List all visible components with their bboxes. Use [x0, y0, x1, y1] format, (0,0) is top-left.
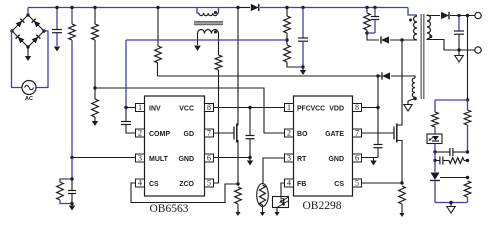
wire - FB to opto collector [281, 183, 285, 197]
ground - input cap return arrow [54, 47, 60, 52]
label GND U2 [328, 156, 344, 163]
wire - FB network top [435, 99, 468, 101]
ground - R11 return arrow [399, 213, 404, 217]
svg-text:8: 8 [207, 103, 211, 112]
resistor R4 (brown-out lower) [92, 88, 99, 121]
resistor R8 (PFC feedback upper) [284, 8, 291, 41]
label OB6563 [150, 203, 189, 215]
svg-text:RT: RT [297, 156, 307, 163]
resistor R5 (ZCD series) [215, 55, 222, 70]
svg-text:7: 7 [207, 129, 211, 138]
wire - INV feedback line [126, 39, 287, 41]
ground - FB network ground [447, 203, 455, 214]
wire - boost output rail [260, 7, 408, 9]
wire - comp branch left [434, 152, 436, 161]
wire - AC input top rail (rectified +) [28, 7, 238, 9]
node - rail/C3 junction [301, 6, 304, 9]
label FB [297, 181, 306, 188]
svg-text:CS: CS [334, 181, 344, 188]
svg-text:5: 5 [355, 179, 359, 188]
node - rail/clamp C junction [373, 6, 376, 9]
svg-text:4: 4 [287, 179, 291, 188]
node - drain/primary junction [400, 38, 403, 41]
resistor R11 (flyback current sense) [399, 186, 406, 213]
capacitor C9 (comp RC) [435, 157, 449, 165]
node - VDD pin junction [376, 106, 379, 109]
pin 4 (FB) [285, 179, 294, 188]
pin 6 (GND) [205, 154, 214, 163]
resistor R15 (comp RC) [449, 158, 468, 164]
pin 4 (CS) [136, 179, 145, 188]
wire - GATE to Q2 [362, 132, 395, 134]
label VDD [329, 106, 344, 113]
wire - gate drive GD to Q1 [214, 132, 235, 134]
wire - T2 aux to ground [408, 99, 415, 102]
capacitor C1 (compensation INV-COMP) [121, 108, 136, 134]
node - FB top junction [466, 98, 469, 101]
svg-text:INV: INV [149, 106, 161, 113]
wire - ZCD to pin 5 [214, 70, 219, 183]
node - rail/CX junction [55, 6, 58, 9]
pin 3 (MULT) [136, 154, 145, 163]
label RT [297, 156, 307, 163]
label GND U1 [178, 156, 194, 163]
node - output cap junction top [457, 14, 460, 17]
node - output cap junction bottom [457, 48, 460, 51]
svg-text:GND: GND [178, 156, 194, 163]
optocoupler U3 LED [427, 134, 442, 144]
node - ref divider junction [466, 176, 469, 179]
op-amp U2 (OB2298 PWM controller) body [294, 96, 353, 196]
svg-text:AC: AC [25, 96, 33, 102]
svg-text:GD: GD [184, 131, 195, 138]
svg-text:FB: FB [297, 181, 306, 188]
label OB2298 [303, 200, 342, 212]
pin 1 (PFCVCC) [285, 103, 294, 112]
node - T1 aux phase dot [214, 31, 217, 34]
svg-text:GATE: GATE [325, 131, 344, 138]
wire - rail to boost diode [238, 7, 250, 9]
node - T2 primary phase dot [409, 19, 412, 22]
bridge rectifier BR1 [10, 13, 45, 48]
node - Q2 CS junction [400, 181, 403, 184]
shunt regulator U4 (TL431) [430, 173, 440, 203]
resistor R9 (PFC feedback lower) [284, 40, 303, 67]
wire - opto emitter lead [276, 208, 278, 213]
wire - BO sense line [95, 88, 285, 133]
wire - U2 GND lead [362, 157, 379, 159]
node - T2 aux end loop [413, 97, 417, 101]
svg-text:VDD: VDD [329, 106, 344, 113]
transformer T2 core [421, 14, 424, 99]
transformer T1 primary winding [199, 13, 217, 16]
svg-text:OB2298: OB2298 [303, 200, 342, 212]
svg-text:6: 6 [207, 154, 211, 163]
svg-text:2: 2 [138, 129, 142, 138]
pin 5 (CS U2) [353, 179, 362, 188]
diode D3 (clamp) [381, 36, 389, 43]
wire - Q1 source to sense node [237, 144, 239, 184]
node - VDD line/cap junction [376, 74, 379, 77]
wire - rail to T2 primary [408, 8, 417, 16]
wire - AC loop left [12, 31, 23, 88]
transformer T1 core [194, 22, 223, 24]
wire - T1 primary out to rail [217, 8, 218, 14]
resistor R6 (VDD startup from rail) [155, 8, 162, 77]
pin 7 (GD) [205, 129, 214, 138]
svg-text:VCC: VCC [179, 106, 194, 113]
resistor R14 (FB divider upper) [464, 100, 471, 152]
pin 5 (ZCO) [205, 179, 214, 188]
wire - GND pin 6 lead [214, 157, 251, 159]
label COMP [149, 131, 170, 138]
ground - opto emitter arrow [274, 212, 279, 216]
wire - FB divider column [467, 16, 469, 101]
transistor Q1 (PFC MOSFET) [234, 123, 238, 144]
label CS U1 [149, 181, 159, 188]
label BO [297, 131, 308, 138]
svg-text:2: 2 [287, 129, 291, 138]
diode D4 (output rectifier) [441, 12, 449, 19]
wire - clamp to diode [367, 33, 379, 40]
svg-text:GND: GND [328, 156, 344, 163]
wire - drain of Q1 to rail [237, 8, 239, 124]
label CS U2 [334, 181, 344, 188]
ground - T1 aux arrow [194, 46, 201, 52]
optocoupler U3 phototransistor [273, 197, 289, 208]
label GATE [325, 131, 344, 138]
node - T1 primary phase dot [214, 11, 217, 14]
transformer T2 aux winding [412, 78, 415, 97]
wire - LED to TL431 [434, 144, 436, 153]
node - rail/R8 junction [285, 6, 288, 9]
ground - BO divider arrow [92, 121, 98, 126]
capacitor C5 (VDD decoupling) [374, 145, 383, 158]
node - C3 bottom junction [301, 65, 304, 68]
node - BO tap junction [93, 86, 96, 89]
svg-text:8: 8 [355, 103, 359, 112]
wire - bridge + output to rail [27, 8, 29, 16]
ground - C3 return arrow [300, 67, 306, 75]
wire - T2 secondary bottom lead [427, 39, 475, 50]
label PFCVCC [297, 106, 325, 113]
node - clamp RC junction [365, 31, 375, 34]
node - rail/clamp R junction [365, 6, 368, 9]
ground - R7 return arrow [235, 212, 240, 216]
capacitor C8 (compensation) [435, 148, 468, 156]
node - comp branch left junction [433, 159, 436, 162]
transformer T2 primary winding [414, 16, 417, 40]
resistor R10 (timing, in ellipse) [257, 184, 269, 213]
wire - Q2 drain to T2 primary [401, 40, 403, 123]
wire - aux diode to T2 aux [391, 76, 415, 78]
wire - CS pin to sense node [362, 182, 403, 184]
wire - VDD line to aux diode [378, 75, 381, 77]
node - rail/R1 junction [70, 6, 73, 9]
resistor R1 (MULT divider upper) [69, 8, 76, 158]
node - R2C2 top junction [70, 177, 73, 180]
label AC [25, 96, 33, 102]
wire - Q2 source to CS node [401, 144, 403, 183]
ground - secondary return [455, 50, 463, 62]
svg-text:1: 1 [138, 103, 142, 112]
pin 6 (GND U2) [353, 154, 362, 163]
svg-text:3: 3 [138, 154, 142, 163]
svg-text:COMP: COMP [149, 131, 170, 138]
wire - INV column [125, 40, 127, 108]
resistor R2 (MULT divider lower) [57, 179, 72, 204]
wire - FB network bottom rail [435, 202, 468, 204]
node - GND/C4 junction [248, 156, 251, 159]
wire - INV pin 1 lead [126, 107, 136, 109]
wire - output positive rail [450, 15, 475, 17]
pin 1 (INV) [136, 103, 145, 112]
node - INV feedback tap [285, 38, 288, 41]
capacitor C2 (MULT filter) [68, 179, 76, 204]
wire - RT to timing resistor [263, 158, 285, 184]
svg-text:OB6563: OB6563 [150, 203, 189, 215]
node - CS sense junction [236, 182, 239, 185]
ground - bridge negative return arrow [25, 47, 31, 61]
wire - VDD pin to supply [362, 107, 379, 109]
terminal - output negative [475, 47, 481, 53]
node - FB divider junction top [466, 14, 469, 17]
wire - AC loop right [36, 31, 48, 88]
node - R2C2 bottom junction [70, 202, 73, 205]
transformer T1 aux winding [198, 29, 219, 33]
node - rail/R3 junction [93, 6, 96, 9]
capacitor CX (input filter) [52, 8, 62, 47]
svg-text:CS: CS [149, 181, 159, 188]
svg-text:6: 6 [355, 154, 359, 163]
svg-text:5: 5 [207, 179, 211, 188]
wire - clamp diode to primary [390, 39, 417, 41]
node - TL431 cathode junction [433, 150, 436, 153]
ground - R10 return arrow [260, 212, 265, 216]
pin 2 (COMP) [136, 129, 145, 138]
wire - TL431 ref line [440, 177, 468, 179]
wire - MULT column lower [71, 158, 73, 180]
terminal - output positive [475, 12, 481, 18]
capacitor C7 (output) [454, 16, 464, 51]
wire - T1 aux left lead [197, 34, 199, 46]
node - boost switch drain junction [236, 6, 239, 9]
capacitor C4 (VCC decoupling) [246, 108, 255, 158]
pin 3 (RT) [285, 154, 294, 163]
node - VCC cap junction [248, 106, 251, 109]
pin 2 (BO) [285, 129, 294, 138]
wire - T1 aux right lead [218, 34, 220, 56]
label GD [184, 131, 195, 138]
resistor R3 (brown-out upper) [92, 8, 99, 89]
diode D1 (boost) [251, 4, 259, 11]
diode D2 (aux supply rectifier) [382, 72, 390, 79]
transformer T2 secondary winding [427, 15, 430, 39]
node - MULT tap junction [70, 156, 73, 159]
ground - MULT divider arrow [69, 204, 75, 211]
svg-text:PFCVCC: PFCVCC [297, 106, 325, 113]
wire - TL431 cathode column [434, 161, 436, 173]
wire - MULT tap to pin 3 [72, 157, 136, 159]
svg-text:MULT: MULT [149, 156, 169, 163]
wire - VDD supply line [158, 75, 379, 77]
op-amp U1 (OB6563 PFC controller) body [145, 96, 205, 196]
svg-text:BO: BO [297, 131, 308, 138]
transistor Q2 (flyback MOSFET) [394, 123, 402, 144]
svg-text:4: 4 [138, 179, 142, 188]
ground - T2 aux ground [404, 101, 412, 111]
capacitor C6 (clamp) [371, 8, 379, 34]
pin 8 (VDD) [353, 103, 362, 112]
ground - U2 GND arrow [370, 158, 376, 166]
wire - rail into T1 primary [197, 8, 199, 14]
svg-text:7: 7 [355, 129, 359, 138]
label VCC [179, 106, 194, 113]
wire - CS sense to pin 4 [131, 183, 238, 203]
node - comp branch right junction [466, 159, 469, 162]
svg-text:ZCO: ZCO [179, 181, 194, 188]
AC source V1 [22, 81, 36, 95]
wire - T2 primary bottom lead [416, 39, 418, 41]
pin 8 (VCC) [205, 103, 214, 112]
pin 7 (GATE) [353, 129, 362, 138]
node - rail/R6 junction [156, 6, 159, 9]
label MULT [149, 156, 169, 163]
capacitor C3 (PFC bulk) [298, 8, 308, 68]
svg-text:3: 3 [287, 154, 291, 163]
node - FB ground junction [449, 201, 452, 204]
svg-text:1: 1 [287, 103, 291, 112]
resistor R12 (clamp) [364, 8, 371, 34]
resistor R13 (opto series) [432, 100, 439, 134]
node - FB comp junction right top [466, 150, 469, 153]
label ZCO [179, 181, 194, 188]
label INV [149, 106, 161, 113]
ground - U1 GND arrow [247, 158, 253, 166]
wire - VCC to PFCVCC line [214, 107, 285, 109]
wire - VDD column [377, 76, 379, 144]
node - INV pin junction [124, 106, 127, 109]
resistor R7 (PFC current sense) [235, 187, 242, 212]
wire - T2 secondary top to rectifier [427, 14, 440, 17]
resistor R16 (FB divider lower) [464, 181, 471, 203]
node - T2 secondary phase dot [429, 35, 432, 38]
